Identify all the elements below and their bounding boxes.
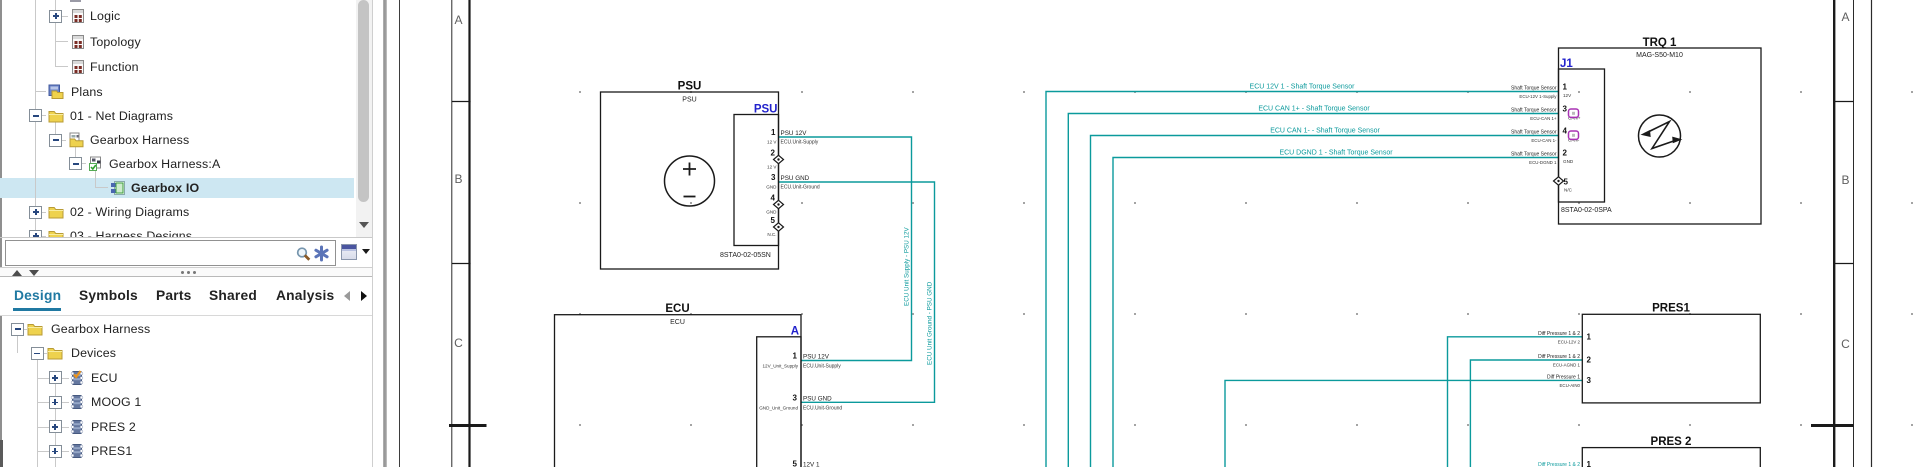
pin 2 PSU no-connect: [767, 149, 783, 170]
device PSU subtitle: [682, 97, 696, 104]
torque sensor symbol (circle with zigzag arrows): [1639, 115, 1683, 157]
svg-text:PSU: PSU: [754, 104, 778, 116]
svg-text:2: 2: [771, 149, 776, 158]
connector designator A: [791, 326, 799, 338]
svg-text:1: 1: [1563, 83, 1568, 92]
device TRQ 1 title: [1643, 37, 1677, 49]
svg-text:PSU GND: PSU GND: [803, 395, 832, 402]
svg-text:PRES 2: PRES 2: [1651, 436, 1692, 448]
wire ECU 12V 1 - Shaft Torque Sensor: [1046, 92, 1559, 467]
pin 4 TRQ1 with coax symbol: [1511, 127, 1580, 144]
device TRQ 1 subtitle MAG-S50-M10: [1636, 52, 1683, 59]
svg-text:ECU.Unit-Ground: ECU.Unit-Ground: [781, 185, 820, 191]
wire ECU CAN 1- - Shaft Torque Sensor: [1091, 136, 1559, 467]
connector designator PSU: [754, 104, 778, 116]
svg-text:Shaft Torque Sensor: Shaft Torque Sensor: [1511, 152, 1557, 158]
svg-text:TRQ 1: TRQ 1: [1643, 37, 1677, 49]
pin 1 TRQ1: [1511, 83, 1572, 100]
svg-text:C: C: [1841, 337, 1850, 351]
svg-text:C: C: [454, 336, 463, 350]
svg-text:ECU-AIN0: ECU-AIN0: [1560, 383, 1581, 388]
svg-text:ECU Unit Supply - PSU 12V: ECU Unit Supply - PSU 12V: [904, 226, 911, 306]
connector designator J1: [1560, 58, 1573, 70]
device ECU title: [665, 303, 689, 315]
wire label ECU CAN 1- - Shaft Torque Sensor: [1270, 128, 1380, 135]
connector J1 inner box: [1559, 69, 1605, 202]
svg-text:Shaft Torque Sensor: Shaft Torque Sensor: [1511, 108, 1557, 114]
svg-text:Diff Pressure 1 & 2: Diff Pressure 1 & 2: [1538, 331, 1580, 337]
svg-text:A: A: [791, 326, 799, 338]
part number 8STA0-02-0SPA: [1561, 207, 1612, 214]
svg-text:A: A: [454, 13, 462, 27]
wire Diff Pressure 1 & 2 to PRES1 pin2: [1470, 360, 1582, 467]
svg-text:J1: J1: [1560, 58, 1573, 70]
pin 1 PRES 2 (clipped): [1538, 460, 1591, 467]
pin 4 PSU no-connect: [766, 194, 783, 215]
wire label ECU Unit Supply - PSU 12V (vertical): [904, 226, 911, 306]
svg-text:PSU 12V: PSU 12V: [803, 354, 830, 361]
wire label ECU Unit Ground - PSU GND (vertical): [927, 281, 934, 365]
pin 5 PSU no-connect: [767, 216, 783, 237]
svg-text:A: A: [1841, 10, 1849, 24]
device TRQ 1 outer box: [1559, 48, 1762, 224]
device PRES 2 box (clipped): [1582, 448, 1760, 467]
pin 5 TRQ1 no-connect: [1554, 177, 1573, 193]
pin 3 TRQ1 with coax symbol: [1511, 105, 1581, 122]
svg-text:B: B: [1841, 173, 1849, 187]
pin 1 PRES1: [1538, 331, 1591, 345]
svg-text:ECU: ECU: [670, 319, 685, 326]
connector PSU inner box: [734, 115, 779, 246]
svg-text:B: B: [454, 172, 462, 186]
svg-text:Shaft Torque Sensor: Shaft Torque Sensor: [1511, 86, 1557, 92]
svg-text:Shaft Torque Sensor: Shaft Torque Sensor: [1511, 130, 1557, 136]
svg-text:12V_Unit_Supply: 12V_Unit_Supply: [763, 364, 799, 369]
wire ECU CAN 1+ - Shaft Torque Sensor: [1068, 114, 1558, 467]
tree connector lines: [35, 0, 36, 236]
svg-text:PSU GND: PSU GND: [781, 175, 810, 182]
pin 5 ECU (clipped at bottom): [793, 460, 820, 467]
device ECU outer box: [555, 315, 802, 467]
svg-text:Diff Pressure 1: Diff Pressure 1: [1547, 375, 1580, 381]
wire ECU Unit Ground - PSU GND: [779, 182, 935, 402]
svg-text:PRES1: PRES1: [1652, 303, 1690, 315]
svg-text:ECU.Unit-Supply: ECU.Unit-Supply: [781, 140, 819, 146]
wire Diff Pressure 1 & 2 to PRES1 pin1: [1448, 337, 1583, 467]
svg-text:12 V: 12 V: [767, 165, 777, 170]
wire label ECU 12V 1 - Shaft Torque Sensor: [1250, 84, 1356, 91]
svg-text:ECU-12V 1-Supply: ECU-12V 1-Supply: [1519, 94, 1557, 99]
pin 2 PRES1: [1538, 354, 1591, 368]
svg-text:ECU.Unit-Ground: ECU.Unit-Ground: [803, 405, 842, 411]
wire ECU DGND 1 - Shaft Torque Sensor: [1113, 158, 1559, 467]
pin 2 TRQ1: [1511, 149, 1574, 166]
svg-text:Diff Pressure 1 & 2: Diff Pressure 1 & 2: [1538, 462, 1580, 467]
svg-text:4: 4: [771, 194, 776, 203]
device PRES 2 title: [1651, 436, 1692, 448]
device PRES1 title: [1652, 303, 1690, 315]
svg-text:ECU Unit Ground - PSU GND: ECU Unit Ground - PSU GND: [927, 281, 934, 365]
wire Diff Pressure 1 to PRES1 pin3: [1225, 380, 1582, 467]
svg-text:3: 3: [1563, 105, 1568, 114]
svg-text:ECU 12V 1 - Shaft Torque Senso: ECU 12V 1 - Shaft Torque Sensor: [1250, 84, 1356, 91]
svg-text:12 V: 12 V: [767, 140, 777, 145]
svg-text:PSU 12V: PSU 12V: [781, 130, 808, 137]
svg-text:2: 2: [1563, 149, 1568, 158]
pin 3 PRES1: [1547, 375, 1591, 389]
device PSU outer box: [601, 92, 779, 269]
svg-text:3: 3: [793, 393, 798, 402]
device PRES1 box: [1582, 314, 1760, 403]
svg-text:12V: 12V: [1563, 93, 1572, 98]
wire label ECU CAN 1+ - Shaft Torque Sensor: [1258, 106, 1370, 113]
svg-text:3: 3: [771, 173, 776, 182]
svg-text:PSU: PSU: [682, 97, 696, 104]
svg-text:N.C.: N.C.: [767, 232, 776, 237]
svg-text:GND_Unit_Ground: GND_Unit_Ground: [759, 405, 798, 410]
svg-text:3: 3: [1587, 376, 1592, 385]
supply source symbol (circle with plus minus): [665, 156, 715, 206]
splitter between panel and canvas: [383, 0, 387, 467]
svg-text:MAG-S50-M10: MAG-S50-M10: [1636, 52, 1683, 59]
svg-text:ECU: ECU: [665, 303, 689, 315]
window left edge: [0, 0, 2, 467]
svg-text:ECU CAN 1- - Shaft Torque Sens: ECU CAN 1- - Shaft Torque Sensor: [1270, 128, 1380, 135]
selection highlight: [0, 178, 354, 199]
svg-text:ECU-12V 2: ECU-12V 2: [1558, 340, 1581, 345]
svg-text:ECU-CAN 1+: ECU-CAN 1+: [1530, 116, 1557, 121]
pin 3 ECU: [759, 393, 842, 411]
svg-text:ECU-DGND 1: ECU-DGND 1: [1529, 160, 1557, 165]
upper tree scrollbar: [356, 0, 372, 237]
pin 3 PSU: [766, 173, 820, 191]
device ECU subtitle: [670, 319, 685, 326]
svg-text:8STA0-02-05SN: 8STA0-02-05SN: [720, 252, 771, 259]
svg-text:2: 2: [1587, 356, 1592, 365]
pin 1 PSU: [767, 128, 819, 146]
svg-text:1: 1: [1587, 460, 1592, 467]
svg-text:N/C: N/C: [1564, 188, 1573, 193]
svg-text:5: 5: [793, 460, 798, 467]
svg-text:1: 1: [793, 352, 798, 361]
svg-text:12V 1: 12V 1: [803, 462, 820, 467]
svg-text:GND: GND: [766, 185, 777, 190]
svg-text:GND: GND: [766, 210, 777, 215]
svg-text:ECU.Unit-Supply: ECU.Unit-Supply: [803, 364, 841, 370]
svg-text:PSU: PSU: [678, 81, 702, 93]
connector A inner box: [757, 337, 801, 467]
svg-text:ECU-CAN 1-: ECU-CAN 1-: [1531, 138, 1557, 143]
svg-text:GND: GND: [1563, 159, 1574, 164]
wire ECU Unit Supply - PSU 12V: [779, 137, 912, 361]
part number 8STA0-02-05SN: [720, 252, 771, 259]
device PSU title: [678, 81, 702, 93]
svg-text:ECU CAN 1+ - Shaft Torque Sens: ECU CAN 1+ - Shaft Torque Sensor: [1258, 106, 1370, 113]
svg-text:ECU-AGND 1: ECU-AGND 1: [1553, 363, 1581, 368]
svg-text:ECU DGND 1 - Shaft Torque Sens: ECU DGND 1 - Shaft Torque Sensor: [1279, 150, 1393, 157]
svg-text:1: 1: [1587, 333, 1592, 342]
svg-text:5: 5: [771, 216, 776, 225]
svg-text:8STA0-02-0SPA: 8STA0-02-0SPA: [1561, 207, 1612, 214]
svg-text:5: 5: [1564, 178, 1569, 187]
pin 1 ECU: [763, 352, 842, 370]
wire label ECU DGND 1 - Shaft Torque Sensor: [1279, 150, 1393, 157]
svg-text:Diff Pressure 1 & 2: Diff Pressure 1 & 2: [1538, 354, 1580, 360]
svg-text:4: 4: [1563, 127, 1568, 136]
svg-text:1: 1: [771, 128, 776, 137]
